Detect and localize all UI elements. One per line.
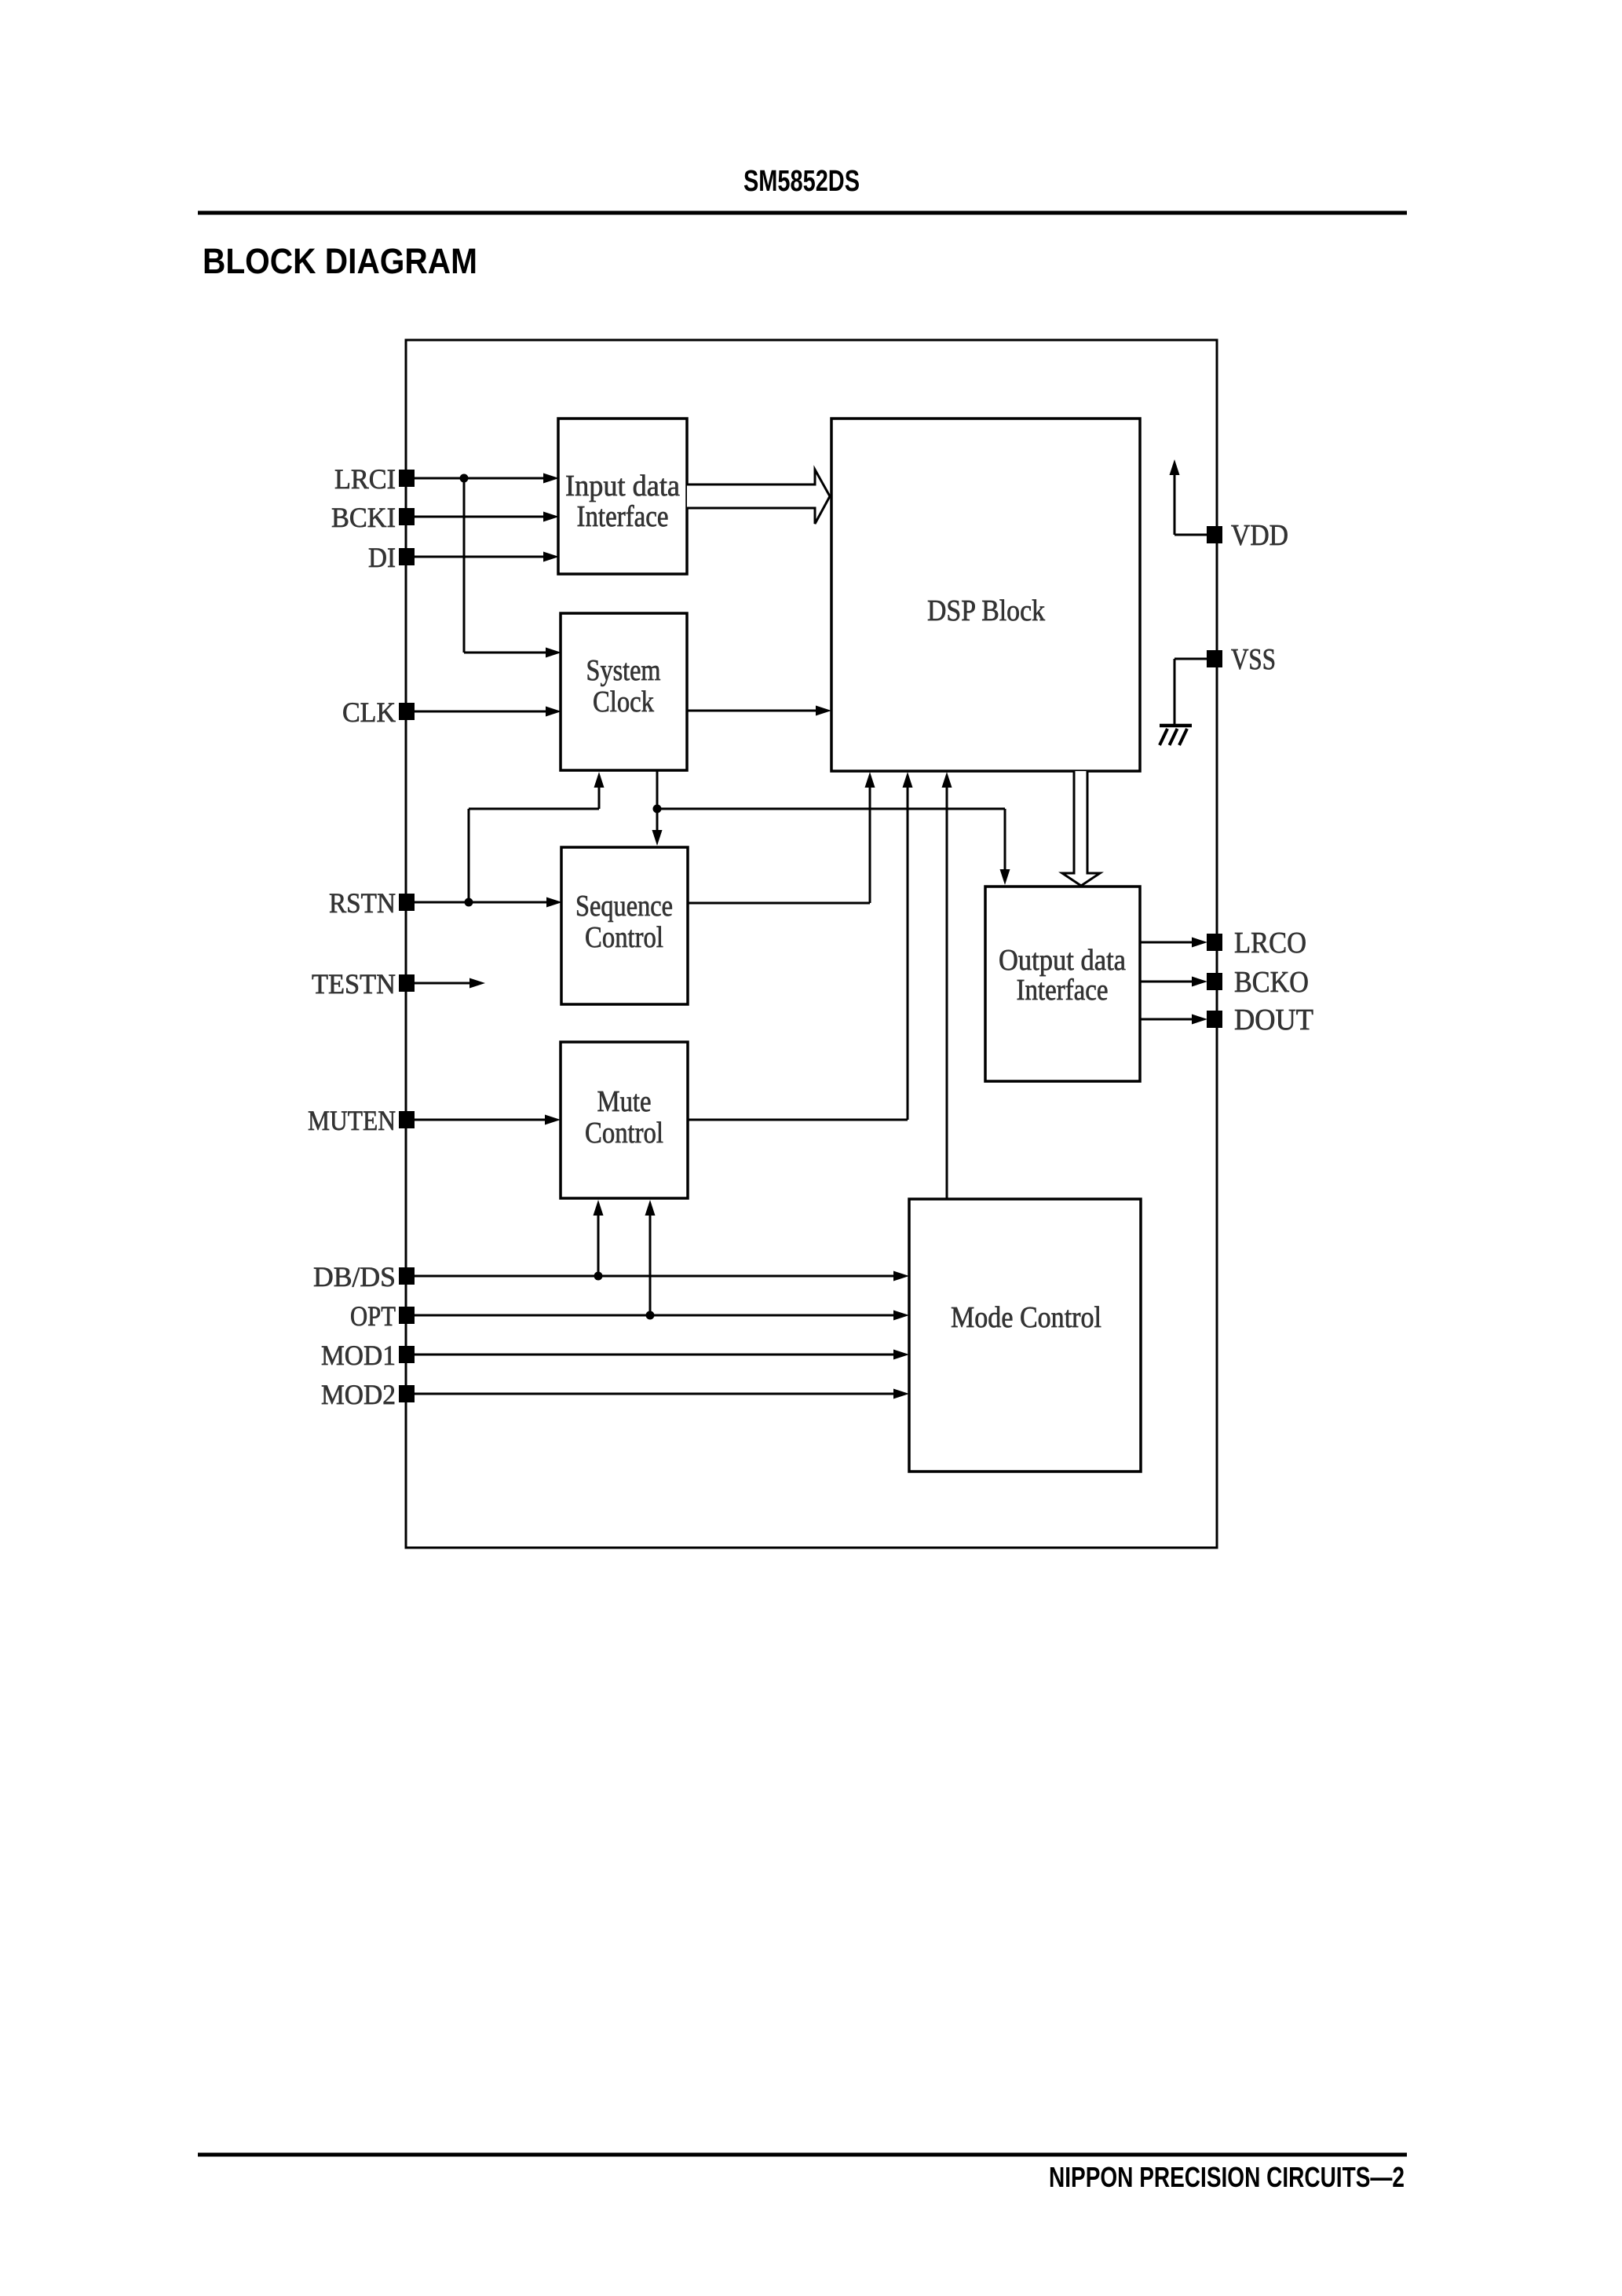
svg-text:Output data: Output data [999, 944, 1126, 977]
svg-text:LRCO: LRCO [1234, 927, 1306, 960]
svg-text:VDD: VDD [1231, 519, 1288, 552]
svg-text:System: System [586, 654, 661, 687]
svg-text:DB/DS: DB/DS [313, 1261, 396, 1292]
svg-text:DSP Block: DSP Block [927, 594, 1045, 627]
svg-text:Clock: Clock [593, 686, 654, 718]
svg-text:SM5852DS: SM5852DS [743, 165, 860, 198]
svg-text:VSS: VSS [1231, 643, 1276, 676]
svg-text:Sequence: Sequence [575, 890, 673, 923]
svg-text:TESTN: TESTN [312, 968, 396, 1000]
svg-text:MOD1: MOD1 [321, 1340, 396, 1371]
svg-text:CLK: CLK [342, 696, 396, 728]
svg-text:MOD2: MOD2 [321, 1379, 396, 1410]
svg-text:Control: Control [585, 921, 663, 954]
svg-text:Interface: Interface [577, 500, 669, 533]
svg-text:NIPPON PRECISION CIRCUITS—2: NIPPON PRECISION CIRCUITS—2 [1049, 2161, 1405, 2193]
svg-text:OPT: OPT [350, 1300, 396, 1332]
svg-text:LRCI: LRCI [334, 463, 396, 495]
svg-text:Control: Control [585, 1117, 663, 1150]
svg-text:DI: DI [368, 542, 396, 573]
svg-text:Interface: Interface [1017, 974, 1109, 1007]
svg-text:BLOCK DIAGRAM: BLOCK DIAGRAM [203, 241, 477, 281]
svg-text:MUTEN: MUTEN [308, 1105, 396, 1136]
svg-text:Input data: Input data [565, 470, 680, 503]
svg-text:DOUT: DOUT [1234, 1004, 1313, 1036]
svg-text:BCKO: BCKO [1234, 966, 1309, 999]
svg-text:RSTN: RSTN [329, 887, 396, 919]
svg-text:Mute: Mute [597, 1085, 652, 1118]
svg-text:Mode Control: Mode Control [951, 1301, 1101, 1334]
svg-text:BCKI: BCKI [331, 502, 396, 533]
